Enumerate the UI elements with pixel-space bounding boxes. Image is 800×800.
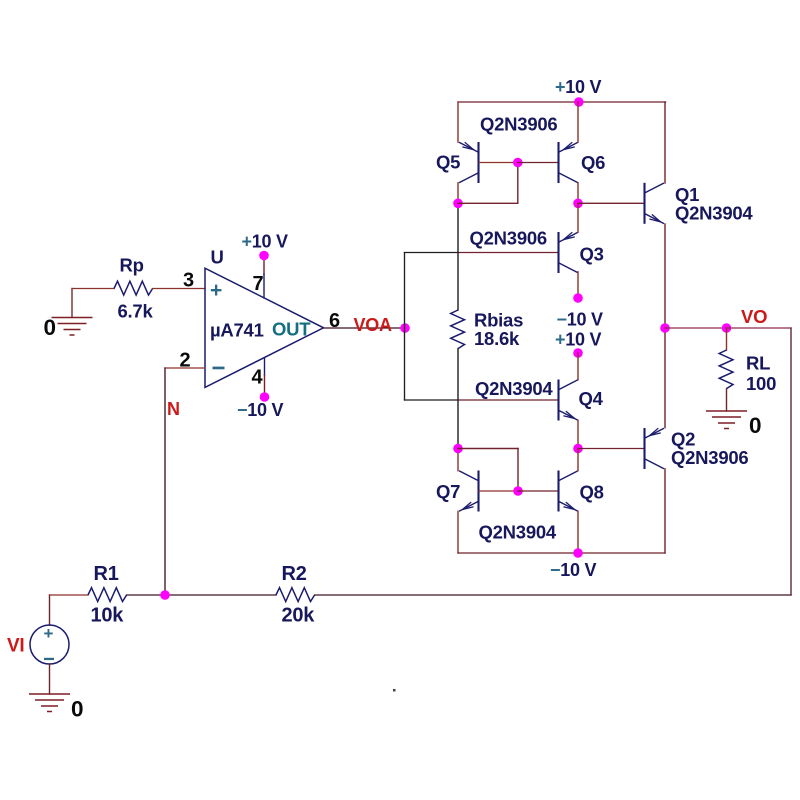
node -10 V dot (Q3 collector) xyxy=(573,293,583,303)
wire Q6 collector to Q1 base xyxy=(578,202,645,204)
svg-text:RL: RL xyxy=(746,352,770,373)
transistor Q4 Q2N3904 NPN xyxy=(559,380,579,421)
resistor R2 xyxy=(276,588,315,602)
wire Q4 emitter stub xyxy=(577,420,579,448)
wire VI to R1 xyxy=(50,594,89,596)
svg-text:Q2N3906: Q2N3906 xyxy=(480,114,557,135)
wire VO row to RL xyxy=(665,327,727,329)
svg-text:N: N xyxy=(167,399,180,419)
resistor Rp xyxy=(114,281,153,295)
wire Q7 base to mirror node xyxy=(479,490,518,492)
resistor Rbias xyxy=(451,310,465,349)
svg-text:+10 V: +10 V xyxy=(555,77,602,97)
svg-text:−10 V: −10 V xyxy=(237,400,284,420)
transistor Q1 Q2N3904 NPN xyxy=(645,183,665,224)
voltage source VI circle xyxy=(30,625,69,664)
node Q6 collector dot xyxy=(573,199,583,209)
wire Q3 emitter stub xyxy=(577,203,579,232)
wire op-amp output to VOA xyxy=(324,327,406,329)
wire Rp left lead xyxy=(72,288,114,290)
svg-text:Q2N3904: Q2N3904 xyxy=(475,378,553,399)
wire bottom mirror node up and left xyxy=(517,449,519,492)
svg-text:Q2N3906: Q2N3906 xyxy=(470,228,547,249)
wire RL top lead xyxy=(726,328,728,350)
svg-text:Q4: Q4 xyxy=(579,388,604,409)
svg-text:Q3: Q3 xyxy=(580,244,604,265)
wire Q6 collector stub xyxy=(577,183,579,204)
svg-text:Q6: Q6 xyxy=(581,152,605,173)
node +10 V dot (Q4 collector) xyxy=(573,348,583,358)
node mirror base dot xyxy=(513,158,523,168)
wire Q1 collector to top rail xyxy=(664,102,666,183)
node Q4 emitter junction dot xyxy=(573,444,583,454)
node VOA dot xyxy=(400,323,410,333)
svg-text:Q7: Q7 xyxy=(436,481,460,502)
svg-text:Q2N3906: Q2N3906 xyxy=(671,447,748,468)
wire VOA loop top to Q3 base xyxy=(405,252,459,254)
svg-text:R2: R2 xyxy=(282,563,307,585)
svg-text:6: 6 xyxy=(329,310,340,332)
wire VOA loop left vertical xyxy=(404,253,406,401)
wire -10 V bottom rail xyxy=(458,552,665,554)
stray period mark xyxy=(393,689,396,692)
wire Q7 emitter stub to rail xyxy=(457,511,459,553)
resistor R1 xyxy=(88,588,127,602)
node +10 V rail dot xyxy=(574,97,584,107)
svg-text:6.7k: 6.7k xyxy=(118,300,154,321)
svg-text:+: + xyxy=(210,279,222,302)
svg-text:Rp: Rp xyxy=(120,254,144,275)
svg-text:+10 V: +10 V xyxy=(242,232,289,252)
resistor RL xyxy=(719,350,733,389)
wire Q6 emitter stub from rail xyxy=(577,102,579,142)
wire VOA loop bottom to Q4 base xyxy=(405,399,459,401)
wire Q5 base to mirror node xyxy=(479,162,518,164)
wire Rbias lower lead xyxy=(457,349,459,449)
wire +10 V top rail xyxy=(458,101,666,103)
svg-text:VOA: VOA xyxy=(354,315,393,335)
transistor Q2 Q2N3906 PNP xyxy=(645,428,665,469)
wire R2 to right edge xyxy=(315,594,791,596)
wire mirror node to Q8 base xyxy=(518,490,559,492)
wire R1 to node N xyxy=(127,594,276,596)
svg-text:0: 0 xyxy=(749,413,761,438)
svg-text:18.6k: 18.6k xyxy=(474,328,520,349)
transistor Q8 Q2N3904 NPN xyxy=(559,471,579,512)
wire Q8 emitter stub to rail xyxy=(577,511,579,553)
op-amp U1 uA741 triangle xyxy=(205,268,324,387)
svg-text:0: 0 xyxy=(71,696,83,721)
node -10 V op-amp supply dot xyxy=(260,392,270,402)
wire mirror node down and left to Q5 collector xyxy=(517,163,519,204)
svg-text:100: 100 xyxy=(746,373,776,394)
wire VO row to right edge xyxy=(727,327,792,329)
node VO RL dot xyxy=(722,323,732,333)
node bottom mirror base dot xyxy=(513,486,523,496)
svg-text:Q8: Q8 xyxy=(580,481,604,502)
wire VI bottom lead xyxy=(49,664,51,694)
wire Q1 emitter to VO node xyxy=(664,224,666,328)
svg-text:0: 0 xyxy=(44,315,56,340)
transistor Q5 Q2N3906 PNP xyxy=(459,142,479,183)
svg-text:+10 V: +10 V xyxy=(555,329,602,349)
svg-text:Q2N3904: Q2N3904 xyxy=(479,522,557,543)
svg-text:7: 7 xyxy=(253,273,264,295)
wire Q8 collector stub xyxy=(577,449,579,471)
svg-text:+: + xyxy=(44,624,54,643)
pin 7 wire to +10V xyxy=(263,256,265,275)
svg-text:4: 4 xyxy=(252,367,264,389)
ground 0 (at Rp input) xyxy=(52,318,93,336)
svg-text:Q2N3904: Q2N3904 xyxy=(675,202,753,223)
wire Q4 collector stub from +10V xyxy=(577,353,579,380)
wire right edge vertical feedback xyxy=(790,328,792,595)
node Q7 collector dot xyxy=(453,444,463,454)
wire Q3 collector stub to -10V xyxy=(577,272,579,298)
svg-text:3: 3 xyxy=(183,270,194,292)
wire mirror node to Q6 base xyxy=(518,162,559,164)
wire op-amp pin 2 xyxy=(165,367,205,369)
transistor Q3 Q2N3906 PNP xyxy=(559,232,579,273)
wire Q2 emitter from VO node xyxy=(664,328,666,428)
svg-text:VI: VI xyxy=(7,636,24,657)
wire RL bottom lead xyxy=(726,389,728,411)
node VO junction dot (Q1 emitter) xyxy=(660,323,670,333)
wire Q5 emitter stub from rail xyxy=(457,102,459,142)
pin 4 wire to -10V xyxy=(264,358,266,375)
svg-text:20k: 20k xyxy=(282,605,316,627)
svg-text:R1: R1 xyxy=(94,563,119,585)
wire Q5 collector stub xyxy=(457,183,459,204)
svg-text:10k: 10k xyxy=(91,605,125,627)
svg-text:OUT: OUT xyxy=(272,318,311,339)
svg-text:−10 V: −10 V xyxy=(550,560,597,580)
VI - symbol xyxy=(44,658,54,660)
wire VI source top lead xyxy=(49,595,51,625)
wire Rp to op-amp pin 3 xyxy=(153,288,205,290)
wire Q2 collector to bottom rail xyxy=(664,469,666,553)
wire ground riser to Rp row xyxy=(71,289,73,318)
ground 0 (VI) xyxy=(29,694,70,712)
node Q5 collector dot xyxy=(453,199,463,209)
wire Q7 collector stub xyxy=(457,449,459,471)
wire node N vertical xyxy=(164,368,166,595)
transistor Q6 Q2N3906 PNP xyxy=(559,142,579,183)
svg-text:VO: VO xyxy=(741,306,767,327)
ground 0 (RL) xyxy=(706,411,747,429)
node -10 V rail dot xyxy=(573,548,583,558)
svg-text:µA741: µA741 xyxy=(210,319,264,340)
svg-text:−10 V: −10 V xyxy=(557,310,604,330)
op-amp - input symbol xyxy=(213,367,225,370)
svg-text:U: U xyxy=(211,247,224,268)
svg-text:Q5: Q5 xyxy=(436,152,460,173)
node +10 V op-amp supply dot xyxy=(259,251,269,261)
wire Rbias upper lead xyxy=(457,203,459,310)
transistor Q7 Q2N3904 NPN xyxy=(459,471,479,512)
wire Q4 emitter to Q2 base xyxy=(578,448,645,450)
node N junction dot xyxy=(160,590,170,600)
